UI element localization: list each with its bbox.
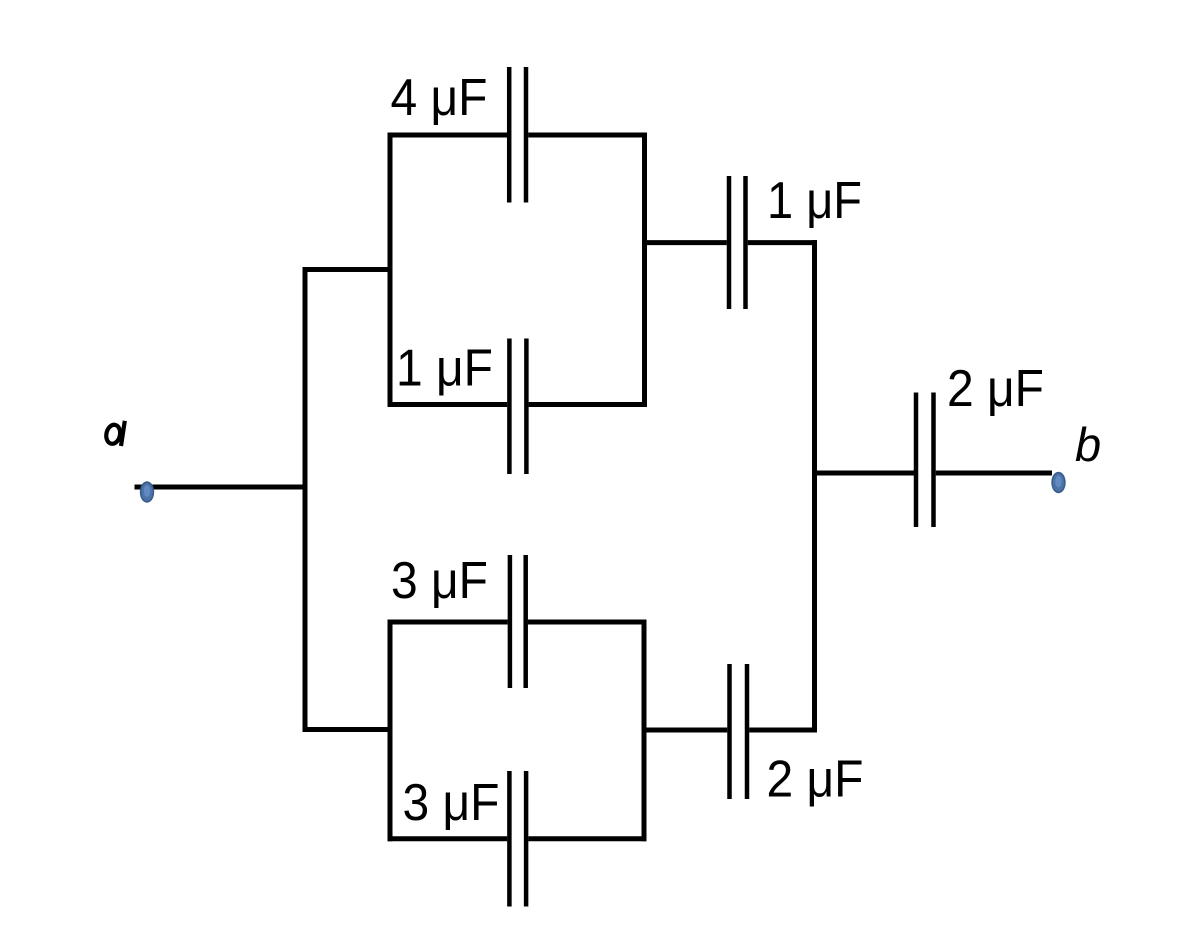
terminal a dot — [140, 481, 154, 502]
wire C6 to right bus — [749, 728, 817, 733]
top box right edge wire — [642, 133, 647, 408]
wire top box to C3 — [642, 240, 727, 245]
bottom box left edge wire — [388, 620, 393, 842]
node a label — [105, 421, 125, 446]
bottom box bottom edge wire (right of C5) — [528, 836, 646, 841]
svg-text:2 μF: 2 μF — [947, 360, 1044, 418]
top box bottom edge wire (left of C2) — [388, 402, 508, 407]
capacitor C5 3uF plates — [509, 771, 526, 907]
wire C3 to right bus — [748, 240, 817, 245]
capacitor C6 2uF plates — [730, 664, 748, 799]
svg-text:3 μF: 3 μF — [391, 552, 488, 610]
wire C7 to terminal b — [936, 471, 1052, 476]
bottom box bottom edge wire (left of C5) — [388, 836, 508, 841]
bottom box right edge wire — [642, 620, 647, 842]
capacitor C1 4uF plates — [509, 67, 526, 203]
terminal b dot — [1051, 472, 1065, 493]
wire from terminal a to left bus — [135, 485, 306, 490]
bottom box top edge wire (right of C4) — [528, 620, 647, 625]
left bus wire — [303, 267, 308, 732]
capacitor C2 1uF plates — [509, 339, 526, 475]
wire right bus to C7 — [812, 471, 914, 476]
top box left edge wire — [388, 133, 393, 408]
bottom box top edge wire (left of C4) — [388, 620, 508, 625]
top box top edge wire (left of C1) — [388, 133, 508, 138]
right bus wire — [812, 240, 817, 732]
top box bottom edge wire (right of C2) — [529, 402, 647, 407]
svg-text:4 μF: 4 μF — [391, 69, 488, 127]
svg-text:1 μF: 1 μF — [767, 172, 862, 230]
capacitor C4 3uF plates — [510, 555, 526, 688]
wire left bus to top box — [303, 267, 393, 272]
svg-text:3 μF: 3 μF — [403, 774, 500, 832]
top box top edge wire (right of C1) — [528, 133, 647, 138]
svg-text:1 μF: 1 μF — [396, 340, 493, 398]
capacitor C7 2uF plates — [916, 393, 934, 528]
svg-text:2 μF: 2 μF — [767, 751, 864, 809]
wire left bus to bottom box — [303, 727, 393, 732]
wire bottom box to C6 — [642, 728, 728, 733]
svg-text:b: b — [1075, 418, 1101, 471]
capacitor C3 1uF plates — [729, 176, 746, 309]
